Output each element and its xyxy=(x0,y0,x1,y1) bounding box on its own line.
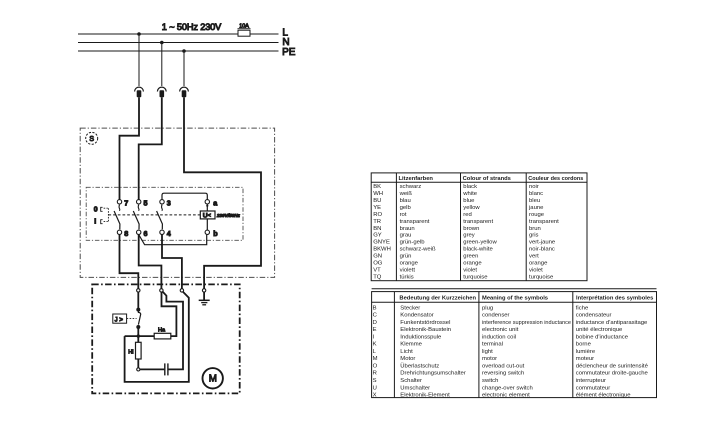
svg-text:commutateur: commutateur xyxy=(576,385,610,391)
svg-text:terminal: terminal xyxy=(482,342,503,348)
contact 8 terminal xyxy=(117,230,121,234)
connector X2 socket arc xyxy=(157,87,166,91)
svg-text:change-over switch: change-over switch xyxy=(482,385,533,391)
svg-text:bobine d'inductance: bobine d'inductance xyxy=(576,334,629,340)
supply rail N xyxy=(78,42,279,44)
table 2: Bedeutung der Kurzzeichen xyxy=(372,288,657,290)
svg-text:commutateur droite-gauche: commutateur droite-gauche xyxy=(576,371,649,377)
svg-text:jaune: jaune xyxy=(528,205,544,211)
svg-text:plug: plug xyxy=(482,305,493,311)
svg-text:interference suppression induc: interference suppression inductance xyxy=(482,320,572,326)
wire contact 8 to terminal 1 xyxy=(120,235,139,289)
svg-text:Litzenfarben: Litzenfarben xyxy=(399,176,434,182)
svg-text:RO: RO xyxy=(373,212,382,218)
svg-text:<: < xyxy=(208,213,211,219)
bridge wire contacts 3 to a xyxy=(162,193,207,199)
contact a terminal xyxy=(205,200,209,204)
connector X1 socket arc xyxy=(135,87,144,91)
node on PE xyxy=(182,49,186,53)
svg-text:0: 0 xyxy=(94,206,98,213)
thermal contact blade xyxy=(138,311,140,325)
svg-text:Bedeutung der Kurzzeichen: Bedeutung der Kurzzeichen xyxy=(399,296,476,302)
svg-text:7: 7 xyxy=(124,198,128,207)
capacitor C plates xyxy=(164,363,166,375)
svg-text:X: X xyxy=(373,393,377,399)
svg-text:Meaning of the symbols: Meaning of the symbols xyxy=(482,296,548,302)
wire Ha to terminal 2 xyxy=(162,292,177,336)
svg-text:Stecker: Stecker xyxy=(400,305,420,311)
svg-text:grau: grau xyxy=(400,233,412,239)
svg-text:Hi: Hi xyxy=(128,350,133,356)
svg-text:BN: BN xyxy=(373,226,381,232)
contact 4 terminal xyxy=(160,230,164,234)
svg-text:Elektronik-Element: Elektronik-Element xyxy=(400,393,450,399)
winding end terminal xyxy=(137,368,140,371)
svg-text:Klemme: Klemme xyxy=(400,342,422,348)
svg-text:3: 3 xyxy=(167,198,171,207)
svg-text:E: E xyxy=(373,327,377,333)
svg-text:Couleur des cordons: Couleur des cordons xyxy=(528,176,583,182)
svg-text:lumière: lumière xyxy=(576,349,596,355)
svg-text:black: black xyxy=(463,184,477,190)
wire node A row xyxy=(125,335,155,337)
wire left loop to terminal 3 xyxy=(125,292,189,382)
svg-text:green: green xyxy=(463,254,478,260)
contact 3 terminal xyxy=(160,200,164,204)
svg-text:türkis: türkis xyxy=(400,274,414,280)
wire thermal to node A xyxy=(137,327,139,336)
svg-text:induction coil: induction coil xyxy=(482,334,516,340)
svg-text:S: S xyxy=(89,136,94,143)
svg-text:M: M xyxy=(373,356,378,362)
svg-text:vert: vert xyxy=(529,254,539,260)
motor M xyxy=(203,368,223,388)
svg-text:WH: WH xyxy=(373,191,383,197)
svg-text:Schalter: Schalter xyxy=(400,378,422,384)
svg-text:S: S xyxy=(373,378,377,384)
switch block dashed box xyxy=(86,187,243,240)
svg-text:bleu: bleu xyxy=(529,198,540,204)
svg-text:gris: gris xyxy=(529,233,539,239)
connector X2 plug pin xyxy=(160,90,165,97)
supply rail L xyxy=(78,33,279,35)
svg-text:weiß: weiß xyxy=(399,191,413,197)
svg-text:Funkentstördrossel: Funkentstördrossel xyxy=(400,320,450,326)
svg-text:turquoise: turquoise xyxy=(463,274,488,280)
svg-text:rouge: rouge xyxy=(529,212,545,218)
svg-text:violett: violett xyxy=(400,267,416,273)
svg-text:yellow: yellow xyxy=(463,205,480,211)
svg-text:VT: VT xyxy=(373,267,381,273)
svg-text:Ha: Ha xyxy=(158,328,166,334)
svg-text:condensateur: condensateur xyxy=(576,313,612,319)
undervoltage release U< wire a side xyxy=(206,204,208,211)
wire to capacitor left xyxy=(140,368,164,370)
svg-text:K: K xyxy=(373,342,377,348)
motor unit box dash-dot xyxy=(92,284,240,393)
connector X1 plug pin xyxy=(137,90,142,97)
svg-text:noir-blanc: noir-blanc xyxy=(529,247,555,253)
svg-text:O: O xyxy=(373,364,378,370)
switch coupling dashed line xyxy=(108,214,200,216)
svg-text:inductance d'antiparasitage: inductance d'antiparasitage xyxy=(576,320,648,326)
wire N connector to contact 5 xyxy=(139,97,162,199)
svg-text:light: light xyxy=(482,349,493,355)
svg-text:8: 8 xyxy=(124,229,128,238)
svg-text:PE: PE xyxy=(282,47,296,58)
wire PE connector to ground terminal xyxy=(184,97,261,288)
svg-text:grün: grün xyxy=(400,254,412,260)
connector X3 plug pin xyxy=(182,90,187,97)
svg-text:electronic element: electronic element xyxy=(482,393,530,399)
svg-text:black-white: black-white xyxy=(463,247,493,253)
svg-text:transparent: transparent xyxy=(400,219,430,225)
svg-text:R: R xyxy=(373,371,377,377)
svg-text:C: C xyxy=(373,313,378,319)
overload release box (theta>) xyxy=(113,314,127,323)
fuse F1 body xyxy=(238,30,250,36)
svg-text:Motor: Motor xyxy=(400,356,415,362)
wire PE drop to connector xyxy=(183,51,185,86)
svg-text:BU: BU xyxy=(373,198,381,204)
svg-text:vert-jaune: vert-jaune xyxy=(529,240,556,246)
svg-text:noir: noir xyxy=(529,184,539,190)
wire N drop to connector xyxy=(161,43,163,87)
supply rail PE xyxy=(78,50,279,52)
symbol S circle xyxy=(86,132,98,144)
svg-text:reversing switch: reversing switch xyxy=(482,371,524,377)
svg-text:overload cut-out: overload cut-out xyxy=(482,364,525,370)
svg-text:blue: blue xyxy=(463,198,475,204)
node A junction dot xyxy=(137,334,140,337)
undervoltage release U< body xyxy=(200,211,215,219)
wire contact 6 to terminal 2 xyxy=(139,235,162,289)
svg-text:violet: violet xyxy=(463,267,477,273)
svg-text:borne: borne xyxy=(576,342,592,348)
dashed actuator line xyxy=(127,318,137,320)
terminal K2 xyxy=(160,289,163,292)
svg-text:grün-gelb: grün-gelb xyxy=(400,240,426,246)
svg-text:Kondensator: Kondensator xyxy=(400,313,433,319)
contact 5 terminal xyxy=(137,200,141,204)
svg-text:rot: rot xyxy=(400,212,407,218)
svg-text:blau: blau xyxy=(400,198,411,204)
svg-text:brun: brun xyxy=(529,226,541,232)
wire L drop to connector xyxy=(138,34,140,86)
svg-text:>: > xyxy=(119,317,123,323)
svg-text:fiche: fiche xyxy=(576,305,589,311)
svg-text:green-yellow: green-yellow xyxy=(463,240,497,246)
svg-text:brown: brown xyxy=(463,226,479,232)
svg-text:a: a xyxy=(213,198,218,207)
svg-text:gelb: gelb xyxy=(400,205,412,211)
svg-text:GNYE: GNYE xyxy=(373,240,390,246)
svg-text:Überlastschutz: Überlastschutz xyxy=(400,363,439,370)
svg-text:interrupteur: interrupteur xyxy=(576,378,606,384)
svg-text:orange: orange xyxy=(400,260,419,266)
terminal K4 (PE) xyxy=(202,289,205,292)
svg-text:grey: grey xyxy=(463,233,475,239)
thermal contact node upper xyxy=(136,308,140,312)
svg-text:YE: YE xyxy=(373,205,381,211)
svg-text:4: 4 xyxy=(167,229,171,238)
svg-text:BK: BK xyxy=(373,184,381,190)
wire L connector to contact 7 xyxy=(120,97,140,199)
svg-text:BKWH: BKWH xyxy=(373,247,391,253)
svg-text:orange: orange xyxy=(529,260,548,266)
terminal K1 xyxy=(137,289,140,292)
svg-text:blanc: blanc xyxy=(529,191,543,197)
svg-text:TR: TR xyxy=(373,219,381,225)
svg-text:turquoise: turquoise xyxy=(529,274,554,280)
svg-text:TQ: TQ xyxy=(373,274,382,280)
svg-text:I: I xyxy=(94,219,96,226)
svg-text:violet: violet xyxy=(529,267,543,273)
node on N xyxy=(160,41,164,45)
svg-text:230V/50Hz: 230V/50Hz xyxy=(216,213,241,218)
svg-text:1 ~ 50Hz 230V: 1 ~ 50Hz 230V xyxy=(162,22,222,32)
enclosure box S dash-dot xyxy=(80,128,274,277)
svg-text:schwarz-weiß: schwarz-weiß xyxy=(400,247,436,253)
wire terminal 1 to thermal contact xyxy=(137,292,139,309)
svg-text:schwarz: schwarz xyxy=(400,184,422,190)
terminal K3 xyxy=(180,289,183,292)
connector X3 socket arc xyxy=(180,87,189,91)
contact 6 terminal xyxy=(137,230,141,234)
contact 7 terminal xyxy=(117,200,121,204)
auxiliary winding Ha xyxy=(154,333,171,339)
svg-text:Induktionsspule: Induktionsspule xyxy=(400,334,442,340)
svg-text:Interprétation des symboles: Interprétation des symboles xyxy=(576,296,653,302)
fuse F1 underline xyxy=(238,28,251,30)
svg-text:red: red xyxy=(463,212,472,218)
svg-text:D: D xyxy=(373,320,377,326)
svg-text:transparent: transparent xyxy=(463,219,493,225)
svg-text:Umschalter: Umschalter xyxy=(400,385,430,391)
svg-text:Colour of strands: Colour of strands xyxy=(463,176,511,182)
svg-text:B: B xyxy=(373,305,377,311)
svg-text:U: U xyxy=(373,385,377,391)
main winding Hi xyxy=(137,336,139,342)
node on L xyxy=(137,32,141,36)
wire terminal 2 to capacitor xyxy=(163,292,183,370)
svg-text:6: 6 xyxy=(144,229,148,238)
svg-text:Elektronik-Baustein: Elektronik-Baustein xyxy=(400,327,451,333)
svg-text:Drehrichtungsumschalter: Drehrichtungsumschalter xyxy=(400,371,466,377)
bridge wire contacts 6 to b xyxy=(139,235,207,245)
svg-text:OG: OG xyxy=(373,260,383,266)
svg-text:switch: switch xyxy=(482,378,498,384)
svg-text:moteur: moteur xyxy=(576,356,594,362)
ground symbol xyxy=(203,292,205,300)
svg-text:condenser: condenser xyxy=(482,313,510,319)
switch blade pole 5-6 xyxy=(137,205,140,211)
svg-text:M: M xyxy=(209,374,217,385)
svg-text:unité électronique: unité électronique xyxy=(576,327,623,333)
svg-text:orange: orange xyxy=(463,260,482,266)
wire contact 4 to terminal 3 xyxy=(162,235,182,289)
thermal contact node lower xyxy=(136,325,140,329)
svg-text:white: white xyxy=(462,191,477,197)
contact b terminal xyxy=(205,230,209,234)
svg-text:J: J xyxy=(115,317,118,323)
svg-text:motor: motor xyxy=(482,356,497,362)
svg-text:transparent: transparent xyxy=(529,219,559,225)
table 1: Litzenfarben xyxy=(371,173,587,281)
svg-text:GN: GN xyxy=(373,254,382,260)
svg-text:5: 5 xyxy=(144,198,148,207)
svg-text:b: b xyxy=(213,229,218,238)
svg-text:electronic unit: electronic unit xyxy=(482,327,519,333)
svg-text:braun: braun xyxy=(400,226,415,232)
svg-text:élément électronique: élément électronique xyxy=(576,393,631,399)
switch blade pole 3-4 xyxy=(161,205,164,211)
svg-text:Licht: Licht xyxy=(400,349,413,355)
switch blade pole 7-8 xyxy=(118,205,121,211)
svg-text:GY: GY xyxy=(373,233,382,239)
svg-text:déclencheur de surintensité: déclencheur de surintensité xyxy=(576,364,649,370)
undervoltage release U< wire b side xyxy=(206,219,208,230)
